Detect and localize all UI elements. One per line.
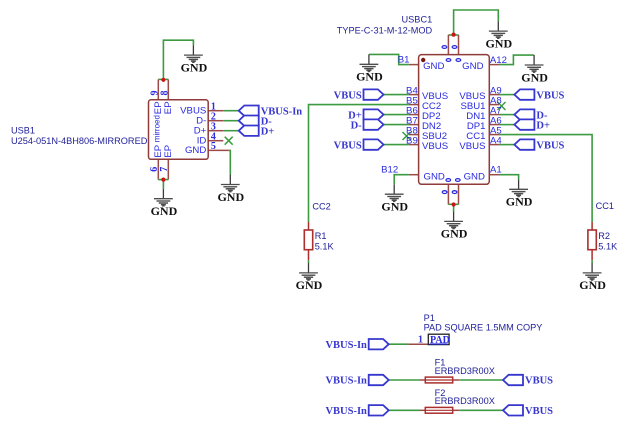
svg-text:5: 5 [211, 141, 216, 152]
svg-text:GND: GND [381, 200, 408, 214]
svg-text:5.1K: 5.1K [315, 241, 335, 251]
svg-text:USB1: USB1 [11, 126, 35, 136]
svg-text:5.1K: 5.1K [598, 241, 618, 251]
svg-text:VBUS-In: VBUS-In [325, 376, 367, 387]
svg-text:7: 7 [159, 167, 170, 172]
svg-text:1: 1 [418, 334, 423, 345]
svg-text:VBUS-In: VBUS-In [325, 406, 367, 417]
svg-text:EP: EP [163, 145, 174, 158]
svg-text:ERBRD3R00X: ERBRD3R00X [435, 396, 495, 406]
svg-text:GND: GND [462, 61, 483, 72]
svg-text:GND: GND [441, 227, 468, 241]
svg-text:PAD SQUARE 1.5MM COPY: PAD SQUARE 1.5MM COPY [424, 323, 543, 333]
svg-text:VBUS: VBUS [536, 90, 564, 101]
svg-text:GND: GND [181, 60, 208, 74]
svg-text:EP: EP [163, 101, 174, 114]
svg-text:VBUS: VBUS [334, 140, 362, 151]
svg-text:GND: GND [424, 171, 445, 182]
svg-text:R2: R2 [598, 231, 610, 241]
svg-text:A1: A1 [490, 165, 502, 176]
svg-text:D+: D+ [261, 126, 275, 137]
svg-text:VBUS: VBUS [334, 90, 362, 101]
svg-text:8: 8 [160, 91, 171, 96]
svg-text:GND: GND [506, 195, 533, 209]
svg-text:U254-051N-4BH806-MIRRORED: U254-051N-4BH806-MIRRORED [11, 136, 148, 146]
svg-text:GND: GND [485, 36, 512, 50]
svg-text:GND: GND [464, 171, 485, 182]
svg-text:VBUS-In: VBUS-In [325, 340, 367, 351]
svg-text:GND: GND [151, 204, 178, 218]
svg-text:GND: GND [521, 70, 548, 84]
svg-text:D-: D- [351, 120, 363, 131]
svg-text:VBUS: VBUS [525, 406, 553, 417]
svg-text:GND: GND [579, 278, 606, 292]
svg-text:VBUS: VBUS [536, 140, 564, 151]
svg-text:D+: D+ [536, 120, 550, 131]
svg-text:TYPE-C-31-M-12-MOD: TYPE-C-31-M-12-MOD [337, 25, 433, 35]
svg-text:VBUS: VBUS [525, 376, 553, 387]
svg-text:CC1: CC1 [596, 201, 614, 211]
svg-text:GND: GND [423, 61, 444, 72]
svg-text:CC2: CC2 [312, 201, 330, 211]
svg-text:ERBRD3R00X: ERBRD3R00X [435, 366, 495, 376]
svg-text:VBUS: VBUS [459, 141, 485, 152]
svg-text:GND: GND [217, 190, 244, 204]
svg-text:mirroed: mirroed [153, 115, 162, 142]
svg-text:GND: GND [356, 70, 383, 84]
svg-text:A4: A4 [490, 136, 502, 147]
svg-text:VBUS: VBUS [422, 141, 448, 152]
svg-text:R1: R1 [315, 231, 327, 241]
svg-text:GND: GND [296, 278, 323, 292]
svg-text:B12: B12 [381, 164, 398, 175]
svg-text:A12: A12 [490, 55, 507, 66]
svg-text:GND: GND [185, 145, 206, 156]
svg-text:B9: B9 [406, 136, 418, 147]
svg-text:USBC1: USBC1 [402, 14, 433, 24]
svg-text:B1: B1 [398, 55, 410, 66]
